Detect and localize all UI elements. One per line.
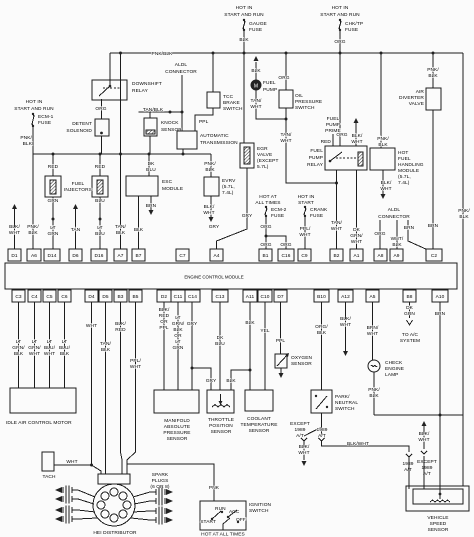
svg-text:PLUGS: PLUGS <box>152 478 169 484</box>
svg-text:GRN/: GRN/ <box>172 321 185 327</box>
svg-text:A/T: A/T <box>404 467 412 473</box>
pin C16 <box>278 249 294 261</box>
svg-text:BLK: BLK <box>239 37 249 43</box>
switch: oil pressure switch <box>285 53 287 90</box>
svg-text:PNK/: PNK/ <box>27 224 39 230</box>
svg-text:PNK/: PNK/ <box>20 135 32 141</box>
svg-text:BLK: BLK <box>101 347 111 353</box>
wire: DK BLU C13 to TPS <box>219 302 221 390</box>
svg-text:AUTOMATIC: AUTOMATIC <box>200 133 229 139</box>
svg-text:GRN/: GRN/ <box>350 233 363 239</box>
svg-text:D6: D6 <box>72 253 79 259</box>
wire: TAN/BLK D5 to distributor <box>105 302 107 474</box>
svg-text:LT: LT <box>16 339 21 345</box>
svg-text:BLK/: BLK/ <box>299 444 310 450</box>
svg-text:1989: 1989 <box>294 427 305 433</box>
svg-text:ORG/: ORG/ <box>315 324 328 330</box>
svg-text:BLK: BLK <box>60 351 70 357</box>
svg-text:C2: C2 <box>431 253 438 259</box>
svg-text:WHT: WHT <box>250 104 261 110</box>
svg-text:5.7L): 5.7L) <box>257 164 269 170</box>
svg-text:TEMPERATURE: TEMPERATURE <box>241 422 278 428</box>
svg-text:LT: LT <box>62 339 67 345</box>
svg-text:FUSE: FUSE <box>310 213 323 219</box>
pin C7 <box>176 249 189 261</box>
svg-text:ECM-1: ECM-1 <box>38 114 54 120</box>
wire: ORG downshift relay to detent solenoid <box>101 99 103 119</box>
motor: idle air control motor <box>10 388 76 413</box>
svg-text:VALVE: VALVE <box>257 152 272 158</box>
svg-text:PNK/BLK: PNK/BLK <box>152 51 174 57</box>
svg-text:START: START <box>200 519 216 525</box>
svg-text:LAMP: LAMP <box>385 372 398 378</box>
svg-text:BRN: BRN <box>404 225 415 231</box>
svg-text:WHT: WHT <box>299 232 310 238</box>
wire: PPL/WHT B5 to distributor <box>127 302 136 474</box>
wire: BLK/WHT A12 ground <box>345 302 347 351</box>
SECTION: mid components <box>9 53 428 250</box>
svg-text:GAUGE: GAUGE <box>249 21 267 27</box>
svg-text:FUEL: FUEL <box>72 181 85 187</box>
svg-text:LT: LT <box>50 225 55 231</box>
svg-text:C14: C14 <box>188 294 197 300</box>
svg-text:B10: B10 <box>317 294 326 300</box>
SECTION: top headers and main bus <box>14 5 470 415</box>
spark plug wires right <box>131 488 173 525</box>
svg-text:PRIME: PRIME <box>325 128 341 134</box>
svg-text:B2: B2 <box>333 253 339 259</box>
svg-text:BLK/: BLK/ <box>115 321 126 327</box>
wire: BLK/WHT ground (except 1989) <box>303 441 305 460</box>
pin A12 <box>338 290 353 302</box>
svg-text:BLU/: BLU/ <box>44 345 56 351</box>
svg-text:TAN/BLK: TAN/BLK <box>143 107 164 113</box>
svg-text:WHT: WHT <box>351 139 362 145</box>
svg-text:A8: A8 <box>377 253 383 259</box>
svg-text:BLK: BLK <box>251 68 261 74</box>
svg-text:ENGINE CONTROL MODULE: ENGINE CONTROL MODULE <box>184 275 243 280</box>
lamp: check engine lamp <box>372 302 374 360</box>
svg-text:ABSOLUTE: ABSOLUTE <box>164 424 190 430</box>
wire: PNK/BLK from ECM-1 fuse to lower bus <box>32 126 34 154</box>
svg-text:EXCEPT: EXCEPT <box>290 421 310 427</box>
svg-text:FUEL: FUEL <box>263 80 276 86</box>
svg-text:B8: B8 <box>406 294 412 300</box>
svg-text:PPL: PPL <box>159 325 169 331</box>
SECTION: distributor/ignition/vss <box>42 413 469 537</box>
wire: BLK/WHT splice above relay <box>354 118 359 123</box>
svg-text:ORG: ORG <box>374 231 385 237</box>
wire: ORG to A8 <box>379 224 381 249</box>
svg-text:BLK/: BLK/ <box>381 180 392 186</box>
svg-text:PUMP: PUMP <box>326 122 340 128</box>
svg-text:GRY: GRY <box>242 213 253 219</box>
pin D4 <box>85 290 98 302</box>
wire: ORG to B1 and C16 <box>265 216 267 249</box>
svg-text:BLK/: BLK/ <box>419 431 430 437</box>
wire: lower PNK/BLK bus <box>33 153 211 155</box>
svg-text:BRN: BRN <box>146 203 157 209</box>
svg-text:GRN: GRN <box>48 231 59 237</box>
svg-text:TO A/C: TO A/C <box>402 332 419 338</box>
svg-text:PUMP: PUMP <box>309 155 323 161</box>
svg-text:GRY: GRY <box>206 378 217 384</box>
svg-text:C3: C3 <box>15 294 22 300</box>
switch: ignition switch <box>200 501 246 530</box>
svg-text:SENSOR: SENSOR <box>291 361 312 367</box>
svg-text:WHT: WHT <box>298 450 309 456</box>
svg-text:BLK/: BLK/ <box>352 133 363 139</box>
svg-text:C6: C6 <box>61 294 68 300</box>
sensor: manifold absolute pressure sensor <box>154 390 199 413</box>
wire: PPL from TCC to automatic transmission <box>195 108 213 131</box>
pin B8 <box>403 290 416 302</box>
svg-text:CHK/TP: CHK/TP <box>345 21 363 27</box>
wire: BRN to C2 <box>408 224 428 250</box>
svg-text:D14: D14 <box>47 253 56 259</box>
wire: TAN/WHT from fuel pump <box>256 90 286 119</box>
svg-text:FUSE: FUSE <box>271 213 284 219</box>
SECTION: ECM and connectors <box>5 249 457 302</box>
svg-text:BLK: BLK <box>226 378 236 384</box>
svg-text:EXCEPT: EXCEPT <box>417 459 437 465</box>
svg-text:ORG: ORG <box>260 242 271 248</box>
svg-text:DETENT: DETENT <box>72 121 92 127</box>
svg-text:BLU/: BLU/ <box>59 345 71 351</box>
wire: BLU / LT BLU to D16 <box>99 197 101 249</box>
module: hot fuel handling module <box>380 53 382 148</box>
wire: WHT D4 to distributor <box>92 302 102 474</box>
wire: BRN from air diverter valve to C2 <box>432 110 434 249</box>
pin D5 <box>99 290 112 302</box>
svg-text:WHT: WHT <box>280 138 291 144</box>
svg-text:TAN/: TAN/ <box>251 98 263 104</box>
switch: park/neutral switch <box>321 302 323 390</box>
pin C5 <box>43 290 56 302</box>
svg-text:GRN: GRN <box>404 311 415 317</box>
svg-text:PRESSURE: PRESSURE <box>163 430 190 436</box>
svg-text:IDLE AIR CONTROL MOTOR: IDLE AIR CONTROL MOTOR <box>6 420 72 426</box>
svg-text:GRY: GRY <box>187 321 198 327</box>
svg-text:BRN/: BRN/ <box>367 325 379 331</box>
svg-text:7.4L): 7.4L) <box>222 190 234 196</box>
pin A10 <box>432 290 448 302</box>
wire: TAN/WHT relay to B2 <box>336 170 338 249</box>
svg-text:(5.7L,: (5.7L, <box>222 184 235 190</box>
svg-text:CONNECTOR: CONNECTOR <box>378 214 410 220</box>
pin A4 <box>210 249 223 261</box>
svg-text:ALL TIMES: ALL TIMES <box>255 200 280 206</box>
svg-text:WHT: WHT <box>351 239 362 245</box>
wire: GRY EGR to A4 <box>217 168 248 249</box>
svg-text:C16: C16 <box>281 253 290 259</box>
svg-text:WHT: WHT <box>418 437 429 443</box>
svg-text:TAN/: TAN/ <box>115 224 127 230</box>
pin D16 <box>91 249 107 261</box>
svg-text:HANDLING: HANDLING <box>398 162 424 168</box>
svg-text:LT: LT <box>47 339 52 345</box>
motor: fuel pump <box>255 62 257 80</box>
svg-text:C4: C4 <box>31 294 38 300</box>
wire: PNK/BLK to A6 <box>32 154 34 249</box>
svg-text:WHT: WHT <box>367 331 378 337</box>
svg-text:WHT/: WHT/ <box>391 236 404 242</box>
wire: TAN splice to D6 <box>73 204 78 209</box>
svg-text:WHT: WHT <box>86 323 97 329</box>
svg-text:FUEL: FUEL <box>310 148 323 154</box>
svg-text:HOT IN: HOT IN <box>298 194 315 200</box>
svg-text:SWITCH: SWITCH <box>295 105 315 111</box>
svg-text:BLU: BLU <box>146 167 156 173</box>
pin D1 <box>8 249 21 261</box>
valve: air diverter valve <box>432 53 434 88</box>
svg-text:SENSOR: SENSOR <box>249 428 270 434</box>
valve: EVRV <box>210 154 212 177</box>
module: automatic transmission <box>177 131 197 149</box>
svg-text:WHT: WHT <box>66 459 77 465</box>
svg-text:SPARK: SPARK <box>152 472 169 478</box>
svg-text:MODULE: MODULE <box>398 168 419 174</box>
pin A6 <box>27 249 41 261</box>
svg-text:C10: C10 <box>260 294 269 300</box>
pin A5 <box>366 290 379 302</box>
svg-text:DK: DK <box>217 335 225 341</box>
svg-text:HEI DISTRIBUTOR: HEI DISTRIBUTOR <box>93 530 137 536</box>
svg-text:SOLENOID: SOLENOID <box>66 128 92 134</box>
svg-text:B5: B5 <box>132 294 138 300</box>
svg-text:THROTTLE: THROTTLE <box>208 417 234 423</box>
wire: PNK/BLK below lamp <box>373 372 375 415</box>
pin B2 <box>330 249 343 261</box>
svg-text:LT: LT <box>32 339 37 345</box>
svg-text:OXYGEN: OXYGEN <box>291 355 313 361</box>
svg-text:TAN/: TAN/ <box>100 341 112 347</box>
svg-text:KNOCK: KNOCK <box>161 120 179 126</box>
wire: LT BLU/BLK C6 to IAC <box>64 302 66 388</box>
pin C9 <box>298 249 311 261</box>
svg-text:1989: 1989 <box>402 461 413 467</box>
svg-text:SENSOR: SENSOR <box>167 436 188 442</box>
svg-text:BRN: BRN <box>435 311 446 317</box>
svg-text:1989: 1989 <box>316 427 327 433</box>
wire: LT GRN/BLK C3 to IAC <box>18 302 20 388</box>
svg-text:BLK: BLK <box>116 230 126 236</box>
wire: BLK/WHT splice (except 1989 at VSS) <box>422 421 427 426</box>
svg-text:START: START <box>298 200 314 206</box>
svg-text:A10: A10 <box>436 294 445 300</box>
svg-text:LT: LT <box>175 339 180 345</box>
pin B3 <box>114 290 127 302</box>
svg-text:HOT IN: HOT IN <box>26 99 43 105</box>
wire: BLK from gauge fuse <box>243 31 245 53</box>
svg-text:GRY: GRY <box>209 224 220 230</box>
svg-text:START AND RUN: START AND RUN <box>14 106 54 112</box>
svg-text:DK: DK <box>406 305 414 311</box>
svg-text:A6: A6 <box>31 253 37 259</box>
sensor: knock sensor <box>149 112 151 118</box>
pin D7 <box>274 290 287 302</box>
svg-text:DIVERTER: DIVERTER <box>399 95 424 101</box>
svg-text:B7: B7 <box>135 253 141 259</box>
svg-text:1989: 1989 <box>421 465 432 471</box>
wire: BRN A10 to speed sensor <box>439 302 441 494</box>
svg-text:VEHICLE: VEHICLE <box>427 515 448 521</box>
wire: DK GRN B8 to A/C <box>409 302 411 318</box>
svg-text:SPEED: SPEED <box>430 521 447 527</box>
svg-text:WHT: WHT <box>9 230 20 236</box>
pin C10 <box>258 290 272 302</box>
svg-text:D16: D16 <box>94 253 103 259</box>
svg-text:D4: D4 <box>88 294 95 300</box>
wire: YEL C10 to coolant sensor <box>264 302 266 390</box>
wire: DK GRN/WHT relay to A1 <box>356 170 358 249</box>
distributor: HEI distributor cap <box>98 474 130 484</box>
svg-text:MANIFOLD: MANIFOLD <box>164 418 190 424</box>
wire: ORG from chk/tp fuse down to fuel pump relay <box>339 31 341 146</box>
wire: knock sensor to bus <box>149 136 151 154</box>
spark plug wires left <box>55 486 97 524</box>
svg-text:RED: RED <box>48 164 59 170</box>
svg-text:WHT: WHT <box>380 186 391 192</box>
svg-text:(6 OR 8): (6 OR 8) <box>150 484 169 490</box>
svg-text:ORG: ORG <box>95 106 106 112</box>
svg-text:WHT: WHT <box>203 210 214 216</box>
wire: BLK/WHT EVRV ground <box>210 196 212 217</box>
svg-text:FUSE: FUSE <box>38 120 51 126</box>
svg-text:7.4L): 7.4L) <box>398 180 410 186</box>
svg-text:BLK: BLK <box>23 141 33 147</box>
svg-text:HOT AT ALL TIMES: HOT AT ALL TIMES <box>201 532 245 537</box>
svg-text:C7: C7 <box>179 253 186 259</box>
svg-text:START AND RUN: START AND RUN <box>320 12 360 18</box>
wire: LT BLU/WHT C5 to IAC <box>49 302 51 388</box>
svg-text:BLK: BLK <box>205 167 215 173</box>
pin C4 <box>28 290 41 302</box>
pin C2 <box>426 249 442 261</box>
wire: BLK/WHT to VSS (1989 A/T) <box>322 441 410 452</box>
svg-text:SENSOR: SENSOR <box>211 429 232 435</box>
svg-text:PNK/: PNK/ <box>458 208 470 214</box>
svg-text:BLK: BLK <box>378 142 388 148</box>
svg-text:EVRV: EVRV <box>222 178 236 184</box>
svg-text:C9: C9 <box>301 253 308 259</box>
connector: tach <box>42 452 54 471</box>
svg-text:WHT: WHT <box>44 351 55 357</box>
svg-text:TRANSMISSION: TRANSMISSION <box>200 140 238 146</box>
svg-text:PPL: PPL <box>199 119 209 125</box>
svg-text:M: M <box>254 84 258 90</box>
svg-text:PNK/: PNK/ <box>368 387 380 393</box>
svg-text:BRN: BRN <box>428 223 439 229</box>
wire: LT GRN C11 to MAP <box>177 302 179 390</box>
pin A8 <box>374 249 387 261</box>
svg-text:SWITCH: SWITCH <box>335 406 355 412</box>
pin C14 <box>185 290 200 302</box>
svg-text:FUSE: FUSE <box>249 27 262 33</box>
svg-text:GRN: GRN <box>173 345 184 351</box>
svg-text:A/T: A/T <box>296 433 304 439</box>
pin D14 <box>44 249 60 261</box>
svg-text:HOT IN: HOT IN <box>236 5 253 11</box>
svg-text:BLK: BLK <box>173 327 183 333</box>
svg-text:A9: A9 <box>393 253 399 259</box>
svg-text:RELAY: RELAY <box>132 88 149 94</box>
pin C6 <box>58 290 71 302</box>
svg-text:BLK: BLK <box>14 351 24 357</box>
svg-text:SWITCH: SWITCH <box>249 508 269 514</box>
svg-text:OR: OR <box>174 333 182 339</box>
wire: BLK/WHT below hot fuel module <box>382 170 384 194</box>
svg-text:HOT AT: HOT AT <box>259 194 276 200</box>
svg-text:A12: A12 <box>341 294 350 300</box>
wire: PNK ignition feed <box>126 464 128 474</box>
svg-text:TCC: TCC <box>223 94 234 100</box>
svg-text:YEL: YEL <box>260 328 270 334</box>
svg-text:ORG: ORG <box>280 242 291 248</box>
svg-text:RED: RED <box>95 164 106 170</box>
pin D6 <box>69 249 82 261</box>
pin B10 <box>314 290 329 302</box>
svg-text:WHT: WHT <box>130 364 141 370</box>
pin A7 <box>114 249 127 261</box>
module: ESC module <box>148 154 150 176</box>
svg-text:BRAKE: BRAKE <box>223 100 240 106</box>
wire: main PNK/BLK bus <box>110 52 463 54</box>
svg-text:BLK: BLK <box>134 227 144 233</box>
wire: WHT/BLK to A9 <box>396 224 398 249</box>
svg-text:LT: LT <box>175 315 180 321</box>
wire: PPL/WHT to C9 <box>304 216 306 249</box>
svg-text:C5: C5 <box>46 294 53 300</box>
svg-text:ALDL: ALDL <box>175 62 188 68</box>
module U1: engine control module <box>5 263 457 289</box>
sensor: throttle position sensor <box>207 390 234 413</box>
svg-text:SYSTEM: SYSTEM <box>400 338 420 344</box>
svg-text:CHECK: CHECK <box>385 360 403 366</box>
svg-text:START AND RUN: START AND RUN <box>224 12 264 18</box>
svg-text:NEUTRAL: NEUTRAL <box>335 400 358 406</box>
svg-text:COOLANT: COOLANT <box>247 416 271 422</box>
wire: TAN/BLK to A7 <box>120 154 122 249</box>
svg-text:BLU: BLU <box>95 231 105 237</box>
svg-text:PUMP: PUMP <box>263 87 277 93</box>
svg-text:ORG: ORG <box>260 224 271 230</box>
svg-text:BLK/: BLK/ <box>204 204 215 210</box>
svg-text:BLK: BLK <box>459 214 469 220</box>
svg-text:WHT: WHT <box>340 322 351 328</box>
svg-text:D7: D7 <box>277 294 284 300</box>
svg-text:HOT IN: HOT IN <box>332 5 349 11</box>
svg-text:PNK: PNK <box>209 485 220 491</box>
svg-text:A7: A7 <box>117 253 123 259</box>
svg-text:TACH: TACH <box>42 474 56 480</box>
svg-text:A11: A11 <box>246 294 255 300</box>
injector 1: fuel injector <box>52 154 54 176</box>
svg-text:POSITION: POSITION <box>209 423 233 429</box>
svg-text:OIL: OIL <box>295 93 303 99</box>
svg-text:PRESSURE: PRESSURE <box>295 99 322 105</box>
svg-text:(EXCEPT: (EXCEPT <box>257 158 279 164</box>
wire: horizontal link to vehicle speed sensor <box>374 415 463 486</box>
svg-text:RED: RED <box>115 327 126 333</box>
svg-text:BLK: BLK <box>245 320 255 326</box>
svg-text:ENGINE: ENGINE <box>385 366 404 372</box>
pin B1 <box>259 249 272 261</box>
svg-text:LT: LT <box>97 225 102 231</box>
svg-text:MODULE: MODULE <box>162 186 183 192</box>
pin B7 <box>132 249 145 261</box>
sensor: oxygen sensor <box>280 302 282 354</box>
